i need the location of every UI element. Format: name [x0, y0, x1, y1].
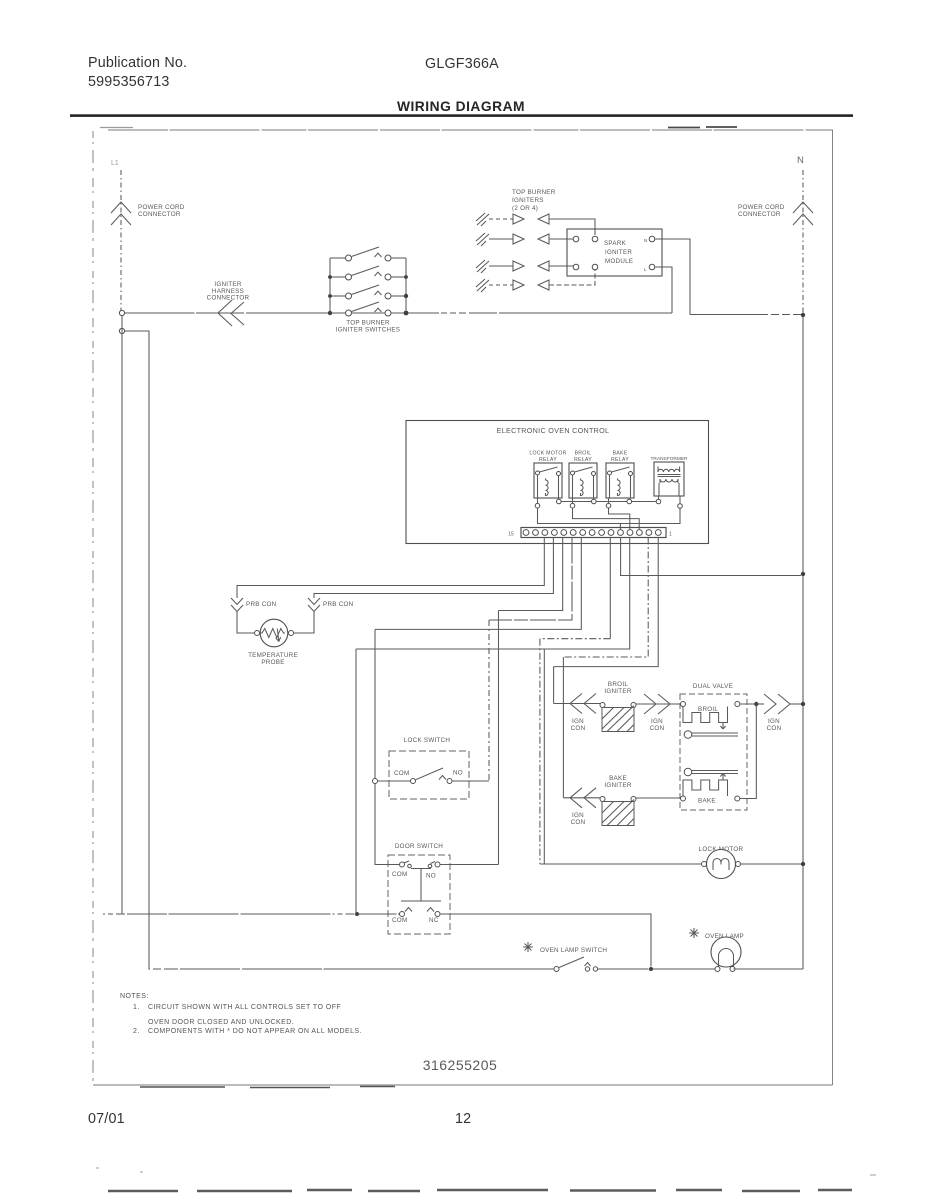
svg-text:IGNITER: IGNITER	[604, 782, 631, 789]
svg-text:IGN: IGN	[572, 812, 584, 819]
svg-text:LOCK MOTOR: LOCK MOTOR	[529, 451, 566, 457]
svg-text:L1: L1	[111, 160, 119, 167]
svg-text:CONNECTOR: CONNECTOR	[207, 295, 250, 302]
svg-text:CONNECTOR: CONNECTOR	[138, 211, 181, 218]
svg-text:BROIL: BROIL	[608, 681, 628, 688]
svg-text:SPARK: SPARK	[604, 240, 627, 247]
svg-text:IGNITER SWITCHES: IGNITER SWITCHES	[336, 327, 401, 334]
svg-text:COMPONENTS WITH * DO NOT APP: COMPONENTS WITH * DO NOT APPEAR ON ALL M…	[148, 1028, 362, 1035]
svg-text:CIRCUIT SHOWN WITH ALL CONTROL: CIRCUIT SHOWN WITH ALL CONTROLS SET TO O…	[148, 1004, 341, 1011]
svg-text:BAKE: BAKE	[609, 775, 627, 782]
svg-text:LOCK SWITCH: LOCK SWITCH	[404, 737, 451, 744]
svg-text:COM: COM	[392, 917, 407, 924]
svg-text:CON: CON	[767, 725, 782, 732]
svg-text:MODULE: MODULE	[605, 258, 633, 265]
svg-text:BROIL: BROIL	[698, 706, 718, 713]
svg-text:TRANSFORMER: TRANSFORMER	[650, 456, 688, 462]
svg-text:Publication No.: Publication No.	[88, 55, 187, 71]
svg-text:NO: NO	[453, 770, 463, 777]
svg-text:5995356713: 5995356713	[88, 74, 170, 90]
svg-text:RELAY: RELAY	[611, 457, 629, 463]
svg-text:IGN: IGN	[572, 718, 584, 725]
svg-text:PRB CON: PRB CON	[323, 601, 354, 608]
svg-text:L: L	[644, 267, 647, 272]
svg-text:BAKE: BAKE	[698, 798, 716, 805]
svg-text:IGN: IGN	[768, 718, 780, 725]
svg-text:15: 15	[508, 532, 514, 538]
svg-text:DOOR SWITCH: DOOR SWITCH	[395, 843, 443, 850]
svg-text:N: N	[644, 238, 647, 243]
svg-text:BROIL: BROIL	[575, 451, 592, 457]
svg-text:12: 12	[455, 1111, 471, 1127]
svg-text:TOP BURNER: TOP BURNER	[346, 320, 390, 327]
svg-text:NOTES:: NOTES:	[120, 993, 149, 1000]
svg-text:GLGF366A: GLGF366A	[425, 56, 499, 72]
svg-text:WIRING DIAGRAM: WIRING DIAGRAM	[397, 99, 525, 114]
svg-text:POWER CORD: POWER CORD	[138, 204, 185, 211]
svg-text:IGNITER: IGNITER	[604, 688, 631, 695]
svg-text:1.: 1.	[133, 1004, 140, 1011]
svg-text:ELECTRONIC OVEN CONTROL: ELECTRONIC OVEN CONTROL	[497, 426, 610, 435]
svg-text:IGNITER: IGNITER	[605, 249, 632, 256]
svg-text:(2 OR 4): (2 OR 4)	[512, 205, 538, 212]
svg-text:CONNECTOR: CONNECTOR	[738, 211, 781, 218]
svg-text:CON: CON	[650, 725, 665, 732]
svg-text:07/01: 07/01	[88, 1111, 125, 1127]
svg-text:2.: 2.	[133, 1028, 140, 1035]
svg-text:1: 1	[669, 532, 672, 538]
svg-text:CON: CON	[571, 819, 586, 826]
svg-text:PRB CON: PRB CON	[246, 601, 277, 608]
svg-text:NC: NC	[429, 917, 439, 924]
svg-text:COM: COM	[392, 871, 407, 878]
svg-text:COM: COM	[394, 770, 409, 777]
svg-text:316255205: 316255205	[423, 1057, 498, 1073]
svg-text:NO: NO	[426, 873, 436, 880]
svg-text:N: N	[797, 155, 804, 166]
svg-text:IGN: IGN	[651, 718, 663, 725]
svg-text:PROBE: PROBE	[261, 659, 284, 666]
svg-text:DUAL VALVE: DUAL VALVE	[693, 683, 733, 690]
svg-text:POWER CORD: POWER CORD	[738, 204, 785, 211]
svg-text:IGNITERS: IGNITERS	[512, 197, 544, 204]
svg-text:TEMPERATURE: TEMPERATURE	[248, 652, 298, 659]
svg-text:RELAY: RELAY	[539, 457, 557, 463]
svg-text:TOP BURNER: TOP BURNER	[512, 189, 556, 196]
svg-text:OVEN DOOR CLOSED AND UNLOCKED.: OVEN DOOR CLOSED AND UNLOCKED.	[148, 1019, 294, 1026]
svg-text:RELAY: RELAY	[574, 457, 592, 463]
svg-text:BAKE: BAKE	[613, 451, 628, 457]
svg-text:OVEN LAMP SWITCH: OVEN LAMP SWITCH	[540, 947, 607, 954]
svg-text:CON: CON	[571, 725, 586, 732]
